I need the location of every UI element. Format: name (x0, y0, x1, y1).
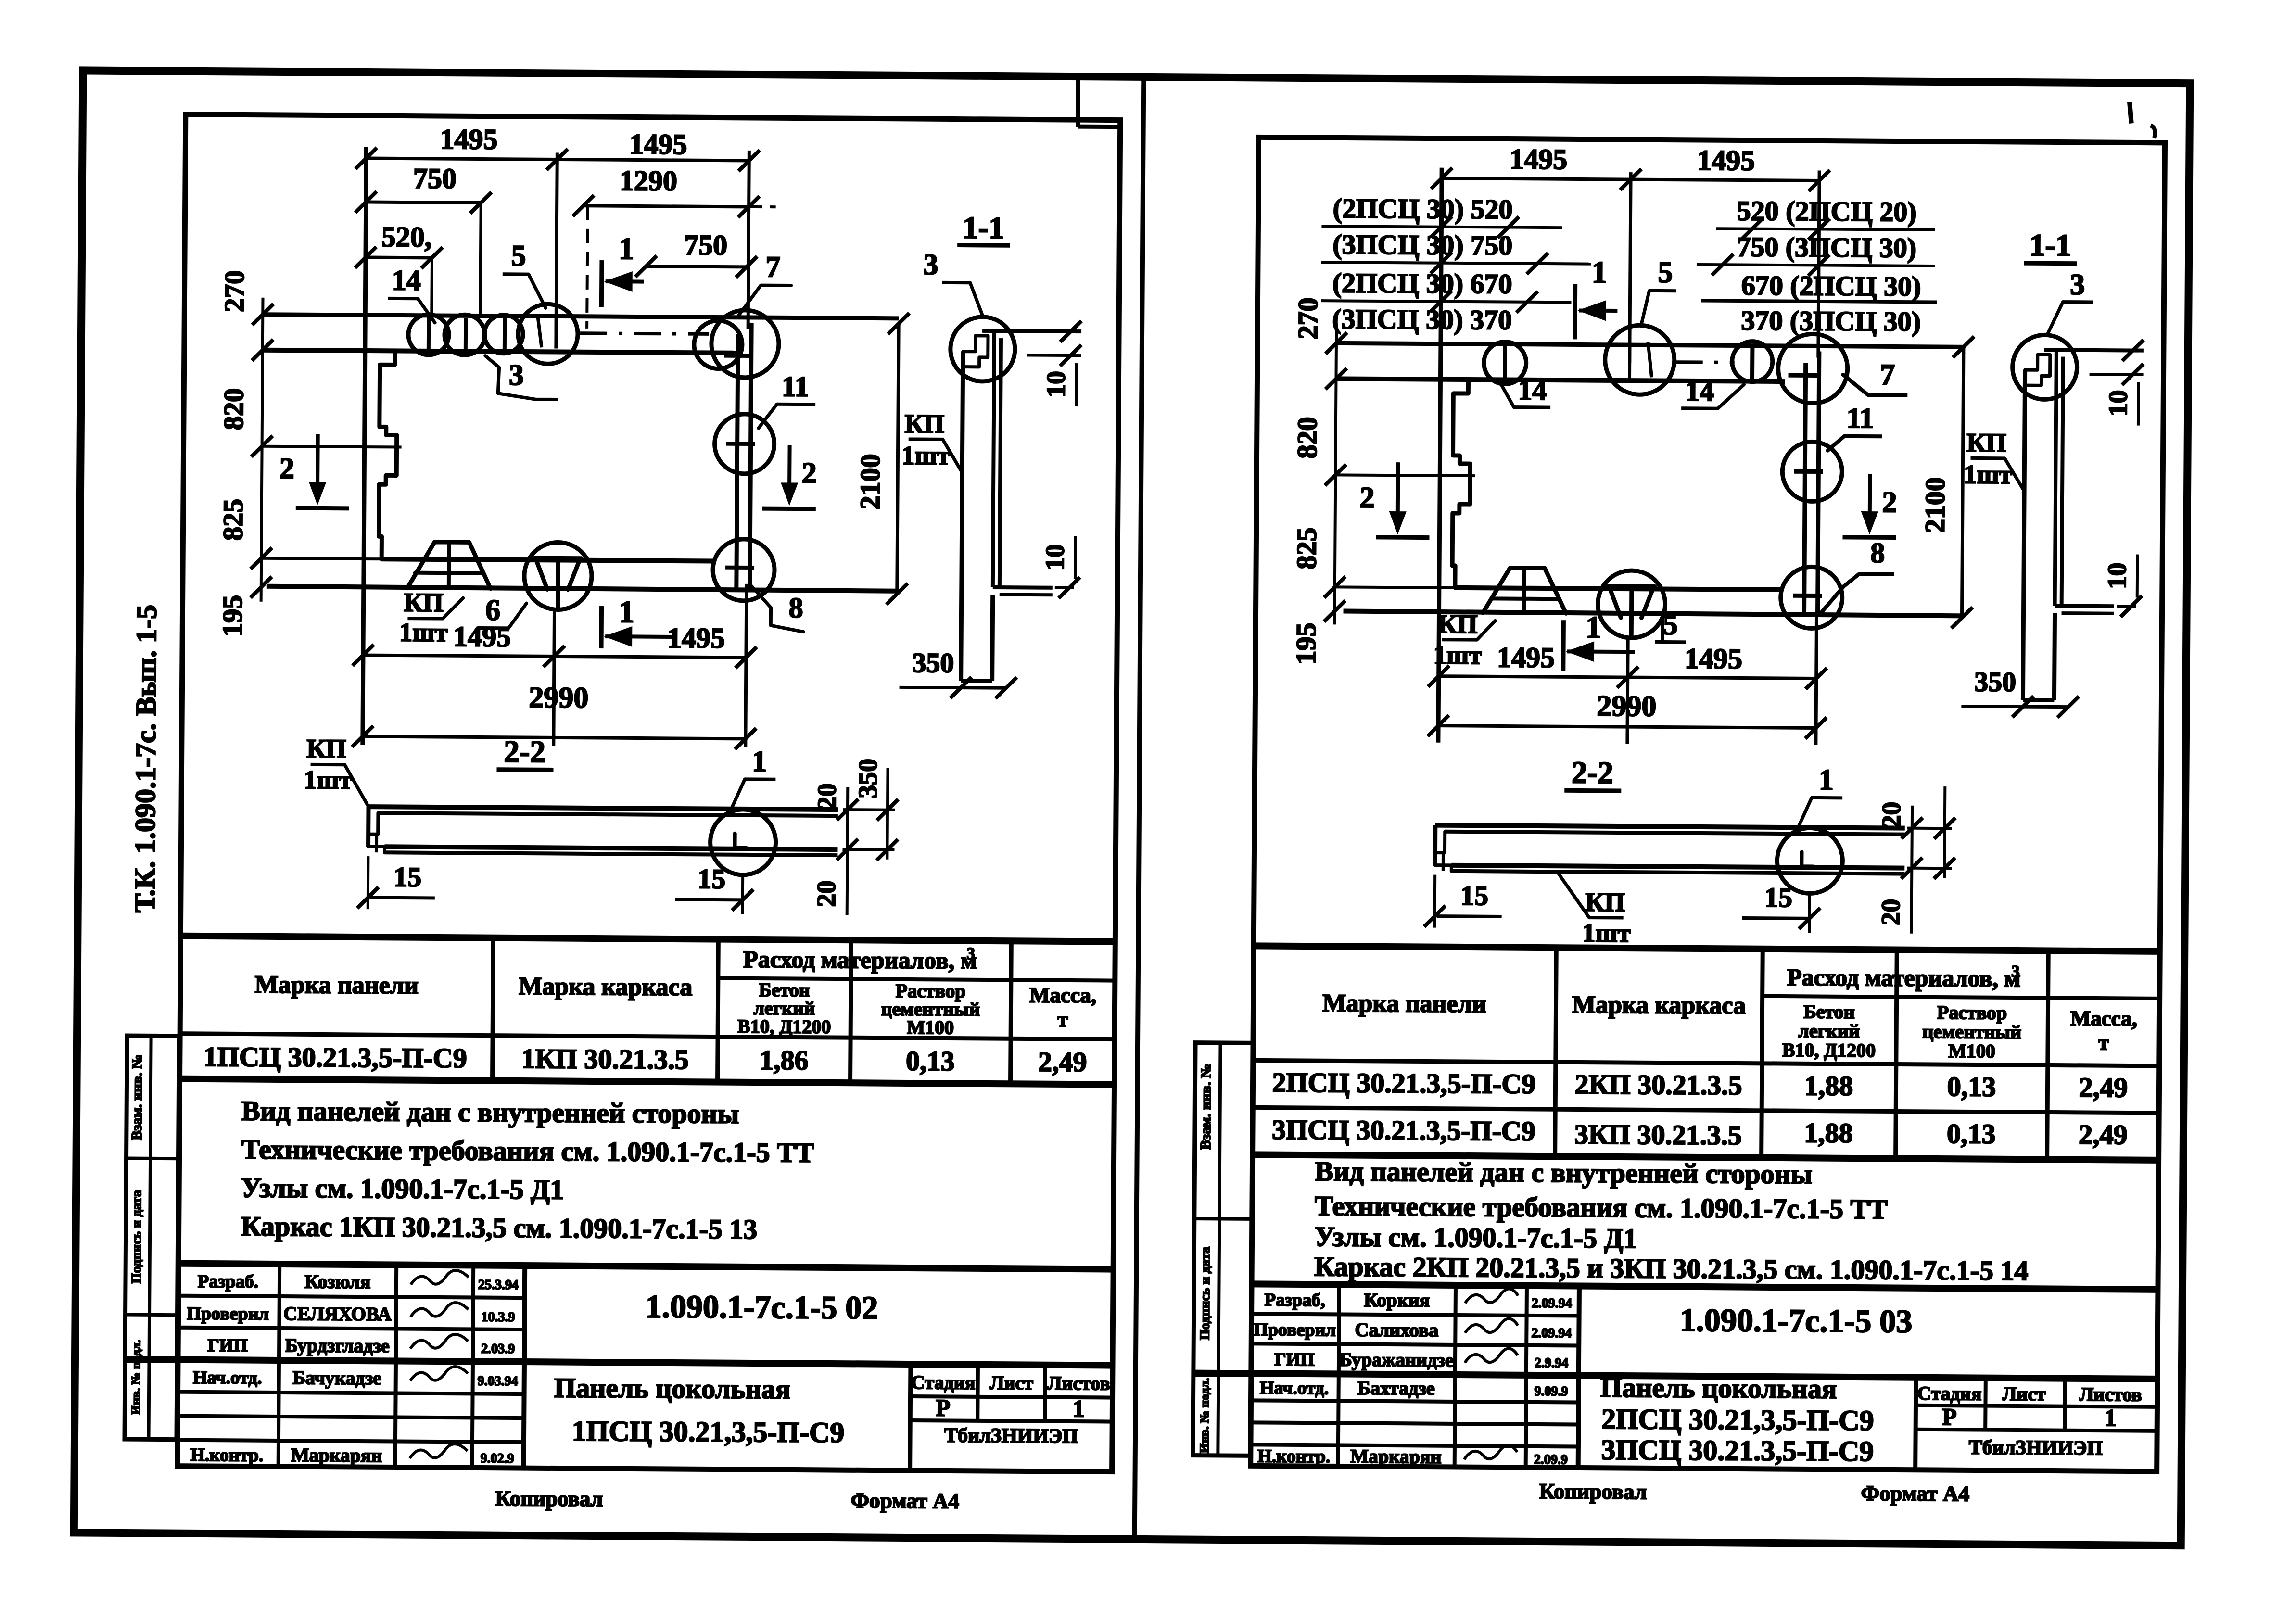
svg-text:Инв. № подл.: Инв. № подл. (1197, 1378, 1212, 1453)
section mark 1 top right sheet (1573, 284, 1578, 339)
right section mark 1 bottom (1561, 620, 1566, 671)
svg-text:Н.контр.: Н.контр. (190, 1445, 263, 1466)
svg-text:Расход материалов, м: Расход материалов, м (743, 946, 977, 974)
svg-text:Расход материалов, м: Расход материалов, м (1787, 963, 2021, 992)
materials table right sheet (1254, 946, 2160, 951)
right sheet dim chain (1334, 326, 1336, 624)
svg-text:270: 270 (1292, 297, 1324, 339)
right callout circle 11 (1782, 442, 1842, 502)
svg-text:2,49: 2,49 (1038, 1046, 1087, 1078)
svg-text:1495: 1495 (1697, 144, 1755, 177)
right section I-I callout circle (2012, 335, 2077, 400)
right panel flange bottom line (1336, 379, 1785, 381)
svg-text:3: 3 (966, 944, 975, 963)
extension line right corner (748, 151, 749, 329)
svg-text:1шт: 1шт (1964, 459, 2012, 489)
callout circle small 3 (484, 315, 523, 354)
svg-text:Марка панели: Марка панели (1322, 989, 1486, 1018)
svg-text:670 (2ПСЦ 30): 670 (2ПСЦ 30) (1741, 270, 1921, 302)
right dim 2990 bottom (1438, 726, 1816, 728)
callout circle small 2 (444, 315, 485, 355)
svg-text:(2ПСЦ 30) 520: (2ПСЦ 30) 520 (1333, 192, 1513, 225)
svg-text:270: 270 (218, 270, 250, 312)
dim line 1495+1495 top right sheet (1442, 178, 1819, 181)
svg-text:14: 14 (1518, 374, 1547, 406)
svg-text:7: 7 (765, 251, 780, 283)
section mark 1 bottom (599, 606, 604, 648)
callout circle 8 (713, 539, 775, 601)
svg-text:КП: КП (1966, 428, 2006, 457)
right callout circle 14 a (1484, 342, 1526, 384)
section 2-2 left rebate (368, 813, 378, 834)
svg-text:Бетон: Бетон (1803, 1000, 1855, 1023)
svg-text:14: 14 (392, 264, 421, 296)
svg-text:(2ПСЦ 30) 670: (2ПСЦ 30) 670 (1332, 267, 1512, 299)
right dim 10 top (2090, 373, 2144, 376)
svg-text:1495: 1495 (440, 123, 497, 155)
right section 2-2 dims 20-20 (1911, 806, 1912, 934)
svg-text:В10, Д1200: В10, Д1200 (1782, 1039, 1876, 1061)
left sheet inner frame (178, 114, 1120, 1472)
svg-text:15: 15 (393, 861, 421, 892)
svg-text:2-2: 2-2 (504, 735, 545, 770)
svg-text:Масса,: Масса, (2070, 1006, 2138, 1031)
dim line 750 top (366, 202, 481, 203)
extension line left chain to panel (363, 147, 367, 745)
title block left sheet (178, 1264, 1113, 1269)
svg-text:Марка панели: Марка панели (254, 971, 419, 1000)
svg-text:Р: Р (1942, 1403, 1957, 1430)
dim line 520 top (366, 256, 432, 260)
svg-text:20: 20 (812, 880, 841, 907)
panel right edge double line (736, 334, 738, 589)
svg-text:2100: 2100 (1919, 477, 1951, 533)
svg-text:1: 1 (1819, 764, 1834, 797)
right section I-I bottom foot (2055, 604, 2114, 608)
svg-text:825: 825 (217, 499, 249, 541)
svg-text:10: 10 (1041, 371, 1070, 397)
svg-text:1,86: 1,86 (760, 1044, 809, 1076)
svg-text:Бурдзгладзе: Бурдзгладзе (285, 1334, 389, 1356)
svg-text:20: 20 (1876, 899, 1905, 925)
svg-text:Бачукадзе: Бачукадзе (292, 1367, 381, 1389)
svg-text:КП: КП (306, 734, 346, 763)
svg-text:2990: 2990 (529, 681, 588, 714)
svg-text:750: 750 (684, 229, 727, 261)
svg-text:5: 5 (1663, 608, 1678, 641)
svg-text:825: 825 (1291, 527, 1322, 569)
right callout circle 14 b (1732, 341, 1773, 382)
svg-text:ГИП: ГИП (1274, 1350, 1315, 1370)
svg-text:1: 1 (752, 745, 767, 778)
svg-text:2: 2 (279, 452, 294, 485)
svg-text:2.9.94: 2.9.94 (1535, 1355, 1568, 1370)
svg-text:Панель цокольная: Панель цокольная (1600, 1372, 1837, 1405)
dim 10 bottom (1026, 586, 1080, 589)
svg-text:1290: 1290 (620, 165, 677, 197)
svg-text:Козюля: Козюля (304, 1270, 370, 1292)
right center extension bottom (1627, 638, 1628, 744)
svg-text:Марка каркаса: Марка каркаса (519, 973, 692, 1001)
svg-text:Подпись и дата: Подпись и дата (1197, 1246, 1213, 1340)
svg-text:Коркия: Коркия (1364, 1289, 1430, 1311)
dim line 1495+1495 top (366, 158, 749, 161)
extension left right-sheet (1438, 168, 1442, 743)
svg-text:0,13: 0,13 (1947, 1118, 1996, 1150)
extension right corner right-sheet (1818, 171, 1819, 358)
svg-text:Лист: Лист (989, 1372, 1033, 1394)
svg-text:8: 8 (1870, 537, 1885, 569)
svg-text:ТбилЗНИИЭП: ТбилЗНИИЭП (1969, 1436, 2103, 1459)
svg-text:520,: 520, (381, 221, 432, 253)
right panel left stepped edge (1452, 380, 1471, 588)
svg-text:т: т (2098, 1030, 2109, 1054)
svg-text:Взам. инв. №: Взам. инв. № (1198, 1064, 1214, 1150)
svg-text:1: 1 (1073, 1395, 1085, 1422)
svg-text:КП: КП (1438, 609, 1478, 639)
svg-text:1: 1 (619, 231, 634, 266)
svg-text:Нач.отд.: Нач.отд. (1260, 1378, 1329, 1398)
right dim 10 bottom (2088, 605, 2142, 608)
svg-text:2990: 2990 (1597, 690, 1656, 723)
svg-text:Масса,: Масса, (1029, 983, 1097, 1008)
svg-text:2100: 2100 (854, 454, 886, 509)
title block right sheet (1252, 1284, 2158, 1290)
svg-text:0,13: 0,13 (906, 1045, 955, 1077)
svg-text:Вид панелей дан с внутренней с: Вид панелей дан с внутренней стороны (1315, 1155, 1812, 1190)
svg-text:Разраб.: Разраб. (198, 1271, 258, 1292)
svg-text:25.3.94: 25.3.94 (478, 1278, 519, 1293)
section mark 1-1 top (599, 260, 604, 307)
svg-text:КП: КП (404, 588, 444, 618)
svg-text:2.09.94: 2.09.94 (1532, 1296, 1572, 1311)
right section 2-2 body (1435, 825, 1905, 828)
svg-text:1495: 1495 (1510, 143, 1567, 176)
svg-text:3: 3 (509, 359, 524, 392)
anchor plate KP trapezoid (407, 542, 491, 589)
svg-text:Инв. № подл.: Инв. № подл. (128, 1340, 143, 1415)
svg-text:10.3.9: 10.3.9 (481, 1310, 515, 1325)
svg-text:1495: 1495 (629, 128, 687, 160)
svg-text:1495: 1495 (667, 622, 725, 654)
svg-text:Марка каркаса: Марка каркаса (1572, 991, 1746, 1019)
svg-text:1КП 30.21.3.5: 1КП 30.21.3.5 (521, 1043, 689, 1075)
svg-text:1ПСЦ 30.21.3,5-П-С9: 1ПСЦ 30.21.3,5-П-С9 (203, 1041, 467, 1074)
svg-text:Технические требования см. 1.0: Технические требования см. 1.090.1-7с.1-… (1315, 1190, 1888, 1225)
svg-text:0,13: 0,13 (1947, 1071, 1996, 1102)
svg-text:1.090.1-7с.1-5 03: 1.090.1-7с.1-5 03 (1680, 1302, 1913, 1340)
svg-text:Стадия: Стадия (911, 1371, 976, 1393)
svg-text:350: 350 (912, 647, 954, 679)
svg-text:750: 750 (413, 163, 457, 195)
svg-text:3ПСЦ 30.21.3,5-П-С9: 3ПСЦ 30.21.3,5-П-С9 (1272, 1114, 1535, 1147)
panel flange centerline dashed (580, 333, 709, 334)
right sheet inner frame (1251, 137, 2165, 1471)
svg-text:9.09.9: 9.09.9 (1535, 1384, 1568, 1399)
svg-text:Проверил: Проверил (1254, 1319, 1336, 1340)
svg-text:Копировал: Копировал (495, 1486, 603, 1511)
svg-text:Т.К. 1.090.1-7с. Вып. 1-5: Т.К. 1.090.1-7с. Вып. 1-5 (129, 605, 163, 913)
panel flange top line (263, 315, 899, 318)
margin column left sheet (125, 1036, 179, 1440)
svg-text:(3ПСЦ 30) 370: (3ПСЦ 30) 370 (1332, 303, 1512, 335)
svg-text:Панель цокольная: Панель цокольная (554, 1372, 791, 1405)
svg-text:Подпись и дата: Подпись и дата (129, 1190, 144, 1283)
svg-text:1-1: 1-1 (2030, 228, 2071, 263)
svg-text:1шт: 1шт (1433, 640, 1482, 670)
svg-text:2ПСЦ 30.21.3,5-П-С9: 2ПСЦ 30.21.3,5-П-С9 (1272, 1067, 1535, 1100)
extension center right-sheet (1630, 172, 1631, 363)
svg-text:2: 2 (1359, 481, 1374, 514)
callout circle 14 (408, 315, 449, 355)
right section 2-2 right callout circle (1777, 828, 1843, 894)
center extension line bottom (554, 610, 555, 746)
callout circle 11 (714, 414, 774, 474)
svg-text:В10, Д1200: В10, Д1200 (737, 1015, 831, 1038)
svg-text:Формат А4: Формат А4 (1861, 1481, 1969, 1506)
panel flange bottom line (263, 350, 736, 353)
svg-text:Маркарян: Маркарян (1350, 1445, 1442, 1468)
svg-text:20: 20 (1877, 802, 1906, 828)
callout circle 5 (518, 304, 578, 364)
svg-text:Листов: Листов (2079, 1383, 2142, 1406)
svg-text:350: 350 (1974, 666, 2016, 697)
materials table left sheet (180, 936, 1115, 942)
svg-text:Узлы см. 1.090.1-7с.1-5 Д1: Узлы см. 1.090.1-7с.1-5 Д1 (241, 1172, 564, 1205)
extension line 520 tick (430, 258, 433, 317)
right dim 1495+1495 bottom (1439, 676, 1816, 679)
svg-text:2,49: 2,49 (2079, 1072, 2128, 1103)
stage columns left (976, 1365, 980, 1421)
svg-text:КП: КП (1585, 887, 1625, 917)
svg-text:СЕЛЯХОВА: СЕЛЯХОВА (283, 1303, 392, 1325)
svg-text:14: 14 (1685, 375, 1714, 407)
svg-text:15: 15 (1764, 882, 1792, 913)
section 2-2 body (368, 807, 838, 810)
svg-text:Узлы см. 1.090.1-7с.1-5 Д1: Узлы см. 1.090.1-7с.1-5 Д1 (1314, 1221, 1637, 1254)
dim 10 top (1027, 354, 1081, 357)
svg-text:Нач.отд.: Нач.отд. (193, 1368, 262, 1388)
svg-text:М100: М100 (907, 1016, 954, 1038)
panel inner bottom line (381, 559, 713, 561)
right panel flange centerline dashed (1676, 360, 1735, 364)
svg-text:Н.контр.: Н.контр. (1257, 1446, 1330, 1467)
svg-text:3КП 30.21.3.5: 3КП 30.21.3.5 (1574, 1118, 1742, 1151)
svg-text:9.02.9: 9.02.9 (481, 1451, 514, 1466)
svg-text:10: 10 (2102, 563, 2131, 589)
svg-text:5: 5 (1658, 256, 1673, 289)
svg-text:КП: КП (904, 409, 944, 439)
svg-text:1: 1 (1591, 255, 1607, 290)
svg-text:Каркас 1КП 30.21.3,5 см. 1.090: Каркас 1КП 30.21.3,5 см. 1.090.1-7с.1-5 … (241, 1211, 757, 1245)
svg-text:цементный: цементный (1922, 1021, 2021, 1043)
right panel flange top line (1336, 343, 1964, 347)
right callout circle 8 (1780, 567, 1842, 629)
svg-text:195: 195 (216, 595, 248, 637)
right panel inner bottom line (1455, 588, 1781, 590)
right callout circle 7 large (1778, 334, 1848, 404)
section 2-2 right callout circle (710, 809, 776, 875)
svg-text:1,88: 1,88 (1804, 1117, 1853, 1149)
svg-text:т: т (1057, 1007, 1068, 1031)
svg-text:15: 15 (1460, 880, 1488, 911)
svg-text:2: 2 (1882, 486, 1897, 519)
svg-text:Буражанидзе: Буражанидзе (1339, 1348, 1454, 1370)
right callout circle 5 big (1605, 325, 1674, 395)
svg-text:Листов: Листов (1047, 1372, 1110, 1394)
svg-text:370 (3ПСЦ 30): 370 (3ПСЦ 30) (1741, 305, 1921, 337)
svg-text:1.090.1-7с.1-5 02: 1.090.1-7с.1-5 02 (646, 1288, 878, 1326)
callout circle 7 large (711, 310, 779, 378)
svg-text:10: 10 (1040, 544, 1069, 570)
svg-text:1шт: 1шт (399, 617, 448, 647)
svg-text:11: 11 (1846, 402, 1874, 434)
right section 2-2 left rebate (1435, 832, 1445, 853)
svg-text:820: 820 (1291, 417, 1323, 458)
callout circle 6 (524, 542, 592, 610)
svg-text:Стадия: Стадия (1917, 1382, 1982, 1405)
svg-text:2.09.9: 2.09.9 (1534, 1452, 1568, 1467)
svg-text:9.03.94: 9.03.94 (478, 1374, 518, 1389)
svg-text:Маркарян: Маркарян (291, 1444, 382, 1466)
svg-text:1495: 1495 (453, 621, 511, 653)
chain tick extensions (262, 446, 402, 447)
svg-text:195: 195 (1290, 622, 1322, 664)
svg-text:ТбилЗНИИЭП: ТбилЗНИИЭП (944, 1424, 1078, 1447)
svg-text:3: 3 (923, 248, 938, 281)
svg-text:1,88: 1,88 (1804, 1070, 1853, 1102)
svg-text:Р: Р (936, 1394, 951, 1421)
right panel outer bottom line (1344, 611, 1962, 616)
svg-text:1: 1 (2105, 1404, 2117, 1431)
svg-text:1-1: 1-1 (963, 211, 1004, 246)
dim 2100 vertical (897, 324, 899, 594)
svg-text:Вид панелей дан с внутренней с: Вид панелей дан с внутренней стороны (241, 1095, 739, 1129)
svg-text:5: 5 (511, 240, 526, 272)
right callout circle 5 bottom (1598, 570, 1665, 638)
section I-I profile (982, 331, 1081, 331)
dim line 2990 bottom (363, 736, 746, 739)
svg-text:2-2: 2-2 (1572, 755, 1613, 790)
dim line 1495+1495 bottom (363, 655, 746, 658)
svg-text:1ПСЦ 30.21,3,5-П-С9: 1ПСЦ 30.21,3,5-П-С9 (572, 1415, 845, 1448)
svg-text:Технические требования см. 1.0: Технические требования см. 1.090.1-7с.1-… (241, 1134, 814, 1168)
svg-text:Взам. инв. №: Взам. инв. № (129, 1054, 145, 1140)
svg-text:1: 1 (619, 595, 634, 629)
extension line 750 tick (480, 203, 481, 317)
svg-text:Копировал: Копировал (1539, 1479, 1647, 1504)
svg-text:Формат А4: Формат А4 (850, 1488, 959, 1513)
svg-text:20: 20 (812, 783, 841, 810)
right title product cell (1915, 1378, 1916, 1470)
svg-text:Разраб,: Разраб, (1265, 1290, 1325, 1311)
svg-text:11: 11 (782, 370, 809, 402)
right dim 2100 vertical (1962, 347, 1963, 618)
svg-text:легкий: легкий (1798, 1020, 1860, 1042)
callout circle 7 small (694, 320, 743, 369)
right anchor plate KP trapezoid (1483, 568, 1567, 613)
svg-text:1495: 1495 (1497, 641, 1555, 673)
left dim chain line (261, 298, 263, 602)
svg-text:2.03.9: 2.03.9 (481, 1342, 515, 1356)
svg-text:2: 2 (802, 457, 817, 490)
section I-I callout circle (950, 317, 1015, 381)
detail mark inside circle 7 (724, 354, 753, 358)
right extension for bottom dims (746, 584, 747, 747)
svg-text:3: 3 (2070, 268, 2085, 301)
svg-text:1: 1 (1586, 610, 1601, 645)
svg-text:Раствор: Раствор (1937, 1001, 2007, 1024)
svg-text:350: 350 (853, 759, 883, 798)
svg-text:Проверил: Проверил (187, 1304, 269, 1324)
svg-text:(3ПСЦ 30) 750: (3ПСЦ 30) 750 (1332, 228, 1512, 261)
svg-text:820: 820 (218, 388, 250, 430)
svg-text:2ПСЦ 30.21,3,5-П-С9: 2ПСЦ 30.21,3,5-П-С9 (1601, 1403, 1874, 1436)
right panel right edge double line (1804, 363, 1806, 614)
svg-text:3ПСЦ 30.21.3,5-П-С9: 3ПСЦ 30.21.3,5-П-С9 (1601, 1434, 1874, 1467)
svg-text:2КП 30.21.3.5: 2КП 30.21.3.5 (1574, 1068, 1742, 1101)
title product cell left (910, 1364, 911, 1470)
svg-text:2.09.94: 2.09.94 (1531, 1326, 1572, 1341)
panel left stepped edge (379, 351, 397, 559)
right stage columns (1983, 1378, 1988, 1430)
svg-text:1шт: 1шт (304, 765, 352, 795)
svg-text:Каркас 2КП 20.21.3,5 и 3КП 30.: Каркас 2КП 20.21.3,5 и 3КП 30.21.3,5 см.… (1314, 1251, 2029, 1286)
svg-text:10: 10 (2103, 390, 2132, 417)
svg-text:Бахтадзе: Бахтадзе (1357, 1377, 1434, 1399)
stray mark top right (2130, 102, 2131, 123)
right section I-I profile (2044, 350, 2144, 350)
svg-text:М100: М100 (1948, 1040, 1995, 1062)
sheet divider line (1135, 77, 1144, 1539)
svg-text:1шт: 1шт (901, 441, 950, 470)
svg-text:7: 7 (1880, 358, 1895, 391)
dim line 750 right top (646, 266, 747, 267)
section I-I bottom foot (993, 585, 1053, 590)
margin column right sheet (1193, 1043, 1253, 1456)
svg-text:2,49: 2,49 (2079, 1119, 2128, 1151)
panel outer bottom line (267, 586, 897, 591)
svg-text:1шт: 1шт (1582, 918, 1631, 948)
svg-text:1495: 1495 (1685, 643, 1742, 675)
svg-text:3: 3 (2011, 962, 2020, 981)
extension line center (556, 152, 557, 333)
svg-text:8: 8 (788, 592, 803, 623)
svg-text:Лист: Лист (2002, 1383, 2046, 1405)
dim line 1290 top (584, 206, 749, 207)
extension line 1290 left tick dashed (587, 206, 588, 329)
svg-text:Салихова: Салихова (1355, 1319, 1438, 1341)
section 2-2 dims right 20-350-20 (847, 787, 848, 915)
svg-text:15: 15 (698, 863, 725, 894)
top tab box between sheets (1076, 80, 1080, 127)
right extension right bottom (1816, 612, 1817, 745)
svg-text:ГИП: ГИП (207, 1335, 248, 1356)
